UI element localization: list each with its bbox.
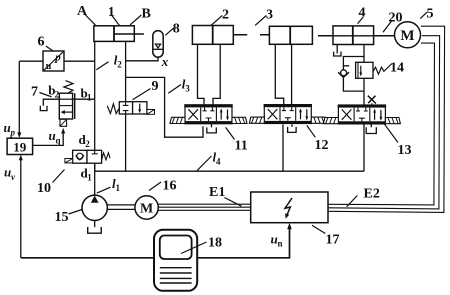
svg-text:2: 2 <box>222 8 229 23</box>
svg-text:9: 9 <box>152 79 159 94</box>
cylinder 1 (A/B) <box>94 26 134 42</box>
check valve (bypass of valve 14) <box>338 70 349 78</box>
valve 12 <box>249 104 326 124</box>
valve 11 <box>170 104 247 124</box>
svg-text:x: x <box>161 54 169 69</box>
wire: valve 13 supply riser <box>363 125 365 172</box>
valve 7 solenoid z <box>60 119 67 126</box>
arrow u_v into box 19 <box>19 155 23 161</box>
valve 13 <box>323 104 400 124</box>
controller box 17 <box>251 192 328 223</box>
arrow u_n into box 17 <box>287 223 292 230</box>
pressure transducer 6 (p/u) <box>43 51 64 72</box>
wire: E1 triple line motor 16 to box 17 <box>158 204 251 210</box>
pump 15 <box>82 195 107 233</box>
svg-text:18: 18 <box>208 236 222 251</box>
svg-text:7: 7 <box>31 85 38 100</box>
svg-text:p: p <box>10 128 16 138</box>
wire: main pump line l1/l2 (pump to cylinder 1 left port) <box>94 41 96 195</box>
wire: u_v line up to box 19 <box>20 159 22 258</box>
valve 10 spring <box>102 153 110 160</box>
svg-text:6: 6 <box>38 35 45 50</box>
svg-text:u: u <box>46 61 52 72</box>
valve 7 tank <box>40 106 47 111</box>
wire: valve 7 left to tank <box>43 99 59 106</box>
motor 5 <box>395 22 421 48</box>
valve 13 tank bracket <box>366 125 376 134</box>
wire: u_q line from box 19 to valve 7 <box>33 133 64 146</box>
wire: check valve bypass loop <box>343 57 364 92</box>
valve 10 (unloading valve d1/d2) <box>65 150 110 171</box>
svg-text:2: 2 <box>55 90 60 100</box>
valve 9 spring W <box>107 104 119 114</box>
svg-text:E2: E2 <box>364 187 380 202</box>
wire: pump shaft double line to motor 16 <box>107 205 135 210</box>
svg-text:B: B <box>142 7 151 22</box>
wire: pressure sensor line to u_p <box>19 61 94 132</box>
svg-text:M: M <box>400 28 414 44</box>
svg-text:8: 8 <box>173 22 180 37</box>
valve 12 tank bracket <box>288 124 297 132</box>
valve 9 (pilot valve) <box>107 102 154 115</box>
svg-text:2: 2 <box>117 60 122 70</box>
wire: cylinder 1 right port line (x=126) down to l4 <box>125 41 127 171</box>
plugged port X above valve 13 <box>368 96 376 106</box>
svg-text:10: 10 <box>37 181 51 196</box>
wire: l3 branch (to valve 11 supply) <box>126 77 203 137</box>
svg-text:n: n <box>278 239 283 249</box>
valve 11 tank bracket <box>207 124 217 133</box>
svg-text:p: p <box>54 52 61 64</box>
wire: l4 main supply line <box>95 170 364 172</box>
svg-text:16: 16 <box>163 179 177 194</box>
svg-text:1: 1 <box>87 93 92 103</box>
svg-text:M: M <box>140 202 153 217</box>
svg-text:17: 17 <box>326 233 340 248</box>
accumulator 8 <box>153 31 163 58</box>
svg-text:13: 13 <box>398 143 412 158</box>
svg-text:4: 4 <box>216 157 221 167</box>
svg-text:5: 5 <box>427 7 434 22</box>
wire: cylinder 2 left port to valve 11 <box>198 44 205 105</box>
wire: E2 triple line box 17 to motor 5 (right edge) <box>328 43 435 205</box>
wire: accumulator 8 link <box>126 57 158 60</box>
svg-text:A: A <box>77 4 88 19</box>
svg-text:14: 14 <box>390 61 404 76</box>
wire: valve 12 supply riser <box>282 125 284 172</box>
wire: cylinder 2 right port to valve 11 <box>213 44 220 105</box>
motor 16 <box>135 196 158 219</box>
svg-text:E1: E1 <box>209 185 225 200</box>
valve 10 solenoid <box>65 159 73 163</box>
svg-text:11: 11 <box>235 139 248 154</box>
arrow u_p into box 19 <box>17 132 21 138</box>
arrow u_q into valve 7 <box>61 128 65 134</box>
svg-text:15: 15 <box>55 210 69 225</box>
wire: cylinder 4 through-rod to motor 5 <box>318 35 395 37</box>
svg-text:q: q <box>56 136 61 146</box>
svg-text:1: 1 <box>116 183 121 193</box>
node b1: valve 7 output to main line <box>73 98 95 100</box>
relief valve 14 <box>356 62 385 78</box>
cylinder 2 <box>192 26 233 45</box>
converter box 19 <box>7 138 32 154</box>
valve 7 spring <box>64 81 73 93</box>
cylinder 3 <box>269 26 312 44</box>
svg-text:20: 20 <box>389 11 403 26</box>
wire: cylinder 1 rod <box>114 33 144 35</box>
wire: computer to u_n riser <box>197 227 290 258</box>
svg-text:19: 19 <box>13 140 27 155</box>
wire: cylinder 3 left port to valve 12 <box>275 44 283 105</box>
wire: cylinder 3 right port to valve 12 <box>291 44 293 105</box>
svg-text:12: 12 <box>315 138 329 153</box>
cylinder 4 drain bracket <box>334 52 341 56</box>
svg-text:1: 1 <box>87 173 92 183</box>
wire: cylinder 4 right port down through valve 14 to valve 13 <box>363 45 365 94</box>
wire: check valve tick <box>343 65 349 67</box>
wire: cylinder 2 rod <box>213 34 248 36</box>
svg-text:2: 2 <box>85 139 90 149</box>
wire: cylinder 3 rod <box>260 34 290 36</box>
svg-text:3: 3 <box>185 84 190 94</box>
cylinder 4 <box>333 26 374 45</box>
svg-text:3: 3 <box>266 8 273 23</box>
computer 18 <box>154 230 197 291</box>
wire: cylinder 4 left port to drain <box>336 45 338 54</box>
valve 7 (proportional pressure valve) <box>59 81 74 127</box>
valve 14 spring <box>373 67 384 74</box>
valve 9 solenoid <box>147 110 155 115</box>
wire: bottom signal bus from u_v corner to computer <box>21 257 154 259</box>
